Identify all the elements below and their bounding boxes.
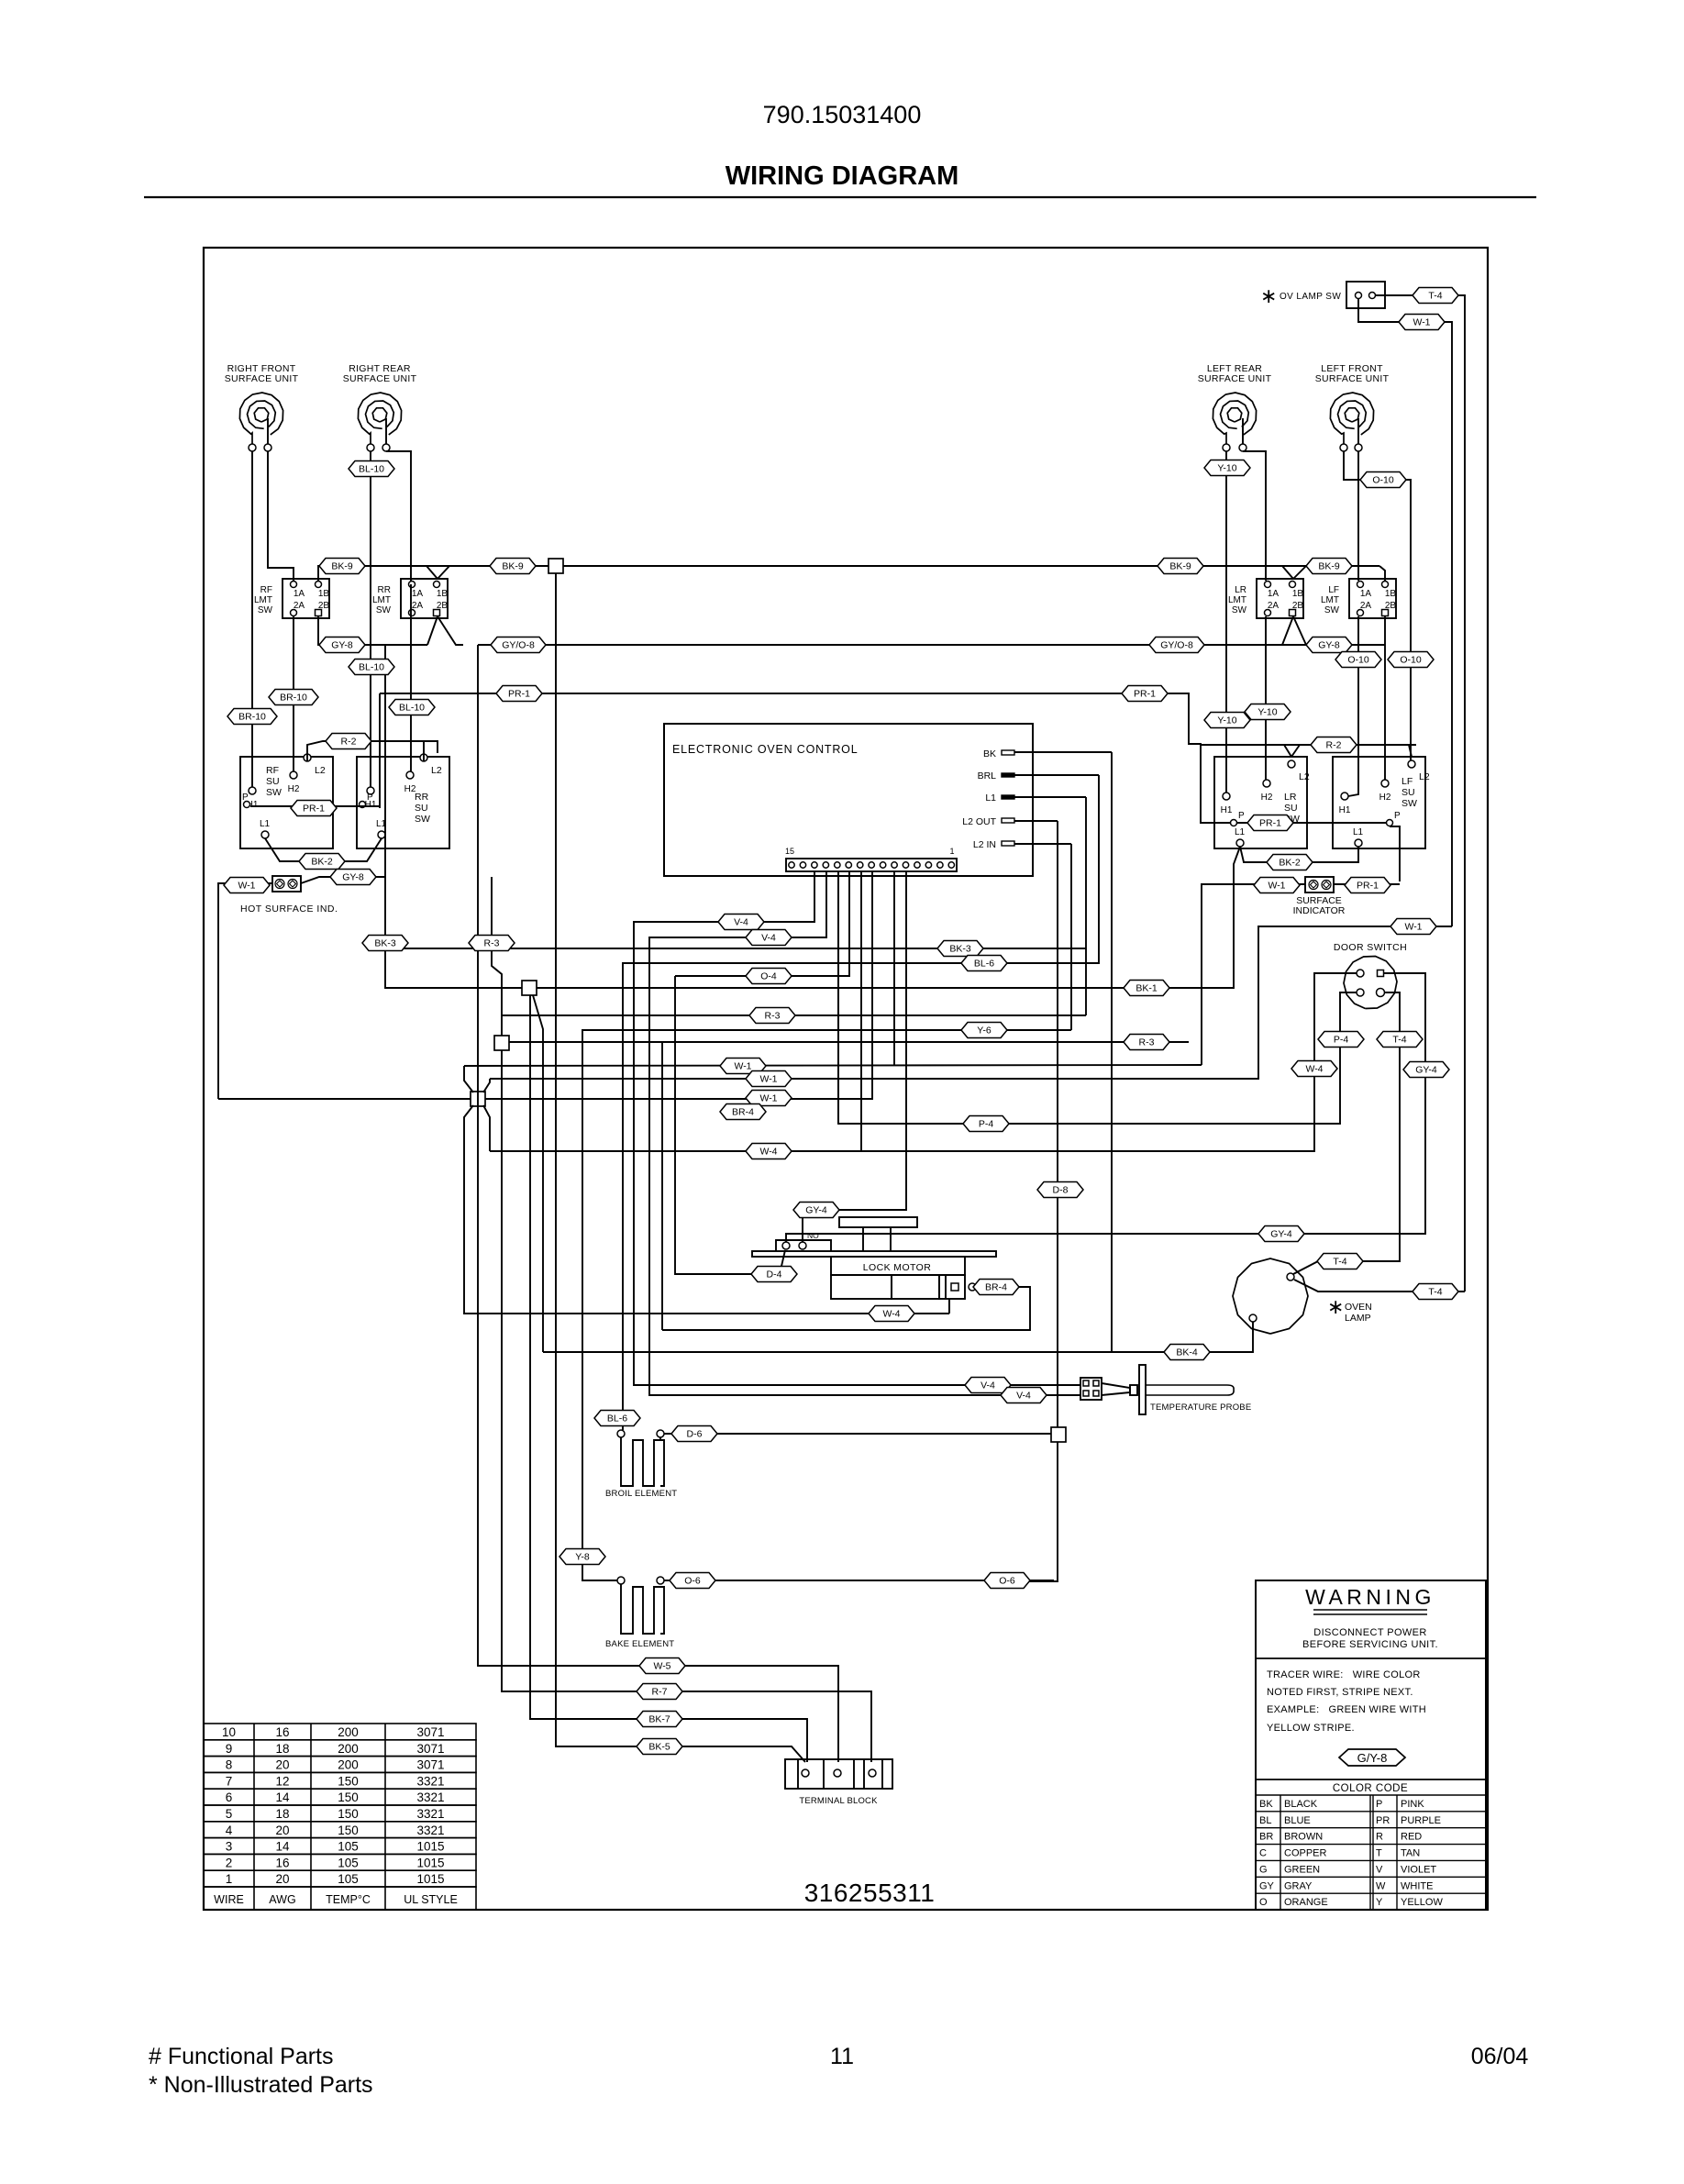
svg-text:W: W <box>1376 1880 1386 1891</box>
svg-text:105: 105 <box>338 1872 359 1886</box>
svg-text:200: 200 <box>338 1742 359 1756</box>
svg-text:L2: L2 <box>1299 771 1310 782</box>
wire label BK-2 <box>1267 855 1313 870</box>
wire O-6 bake right <box>664 1580 1054 1581</box>
wire D-4 stub into lock motor <box>752 1250 785 1274</box>
svg-text:SW: SW <box>1324 605 1340 615</box>
wire D-4 from O-4 drop <box>675 976 752 1274</box>
wire BR-4 riser <box>661 1042 663 1330</box>
wire BL-6 from EOC BRL <box>623 775 1099 1430</box>
wire label O-4 <box>746 969 792 984</box>
svg-text:200: 200 <box>338 1725 359 1739</box>
wire LR coil left lead to LR H1 with Y-10 <box>1225 451 1227 793</box>
svg-text:SU: SU <box>1401 787 1415 798</box>
svg-text:200: 200 <box>338 1758 359 1772</box>
svg-text:BL: BL <box>1259 1815 1271 1826</box>
wire Y-8 to bake element <box>582 1030 1071 1580</box>
wire label R-7 <box>637 1684 682 1700</box>
svg-text:1A: 1A <box>294 589 305 599</box>
OV LAMP SW <box>1260 282 1385 308</box>
svg-text:SU: SU <box>266 776 280 787</box>
svg-text:R-3: R-3 <box>765 1011 781 1022</box>
svg-text:14: 14 <box>275 1840 290 1854</box>
svg-text:H2: H2 <box>1261 793 1273 803</box>
svg-text:GY: GY <box>1259 1880 1275 1891</box>
wire label PR-1 <box>496 686 542 702</box>
wire W-1 run a <box>464 1065 1202 1066</box>
wire label PR-1 <box>1345 878 1390 893</box>
wire W-1 from left indicator <box>218 883 272 1099</box>
EOC output L2 OUT <box>962 816 1058 827</box>
wire label O-10 <box>1335 652 1381 668</box>
svg-text:RF: RF <box>266 765 279 776</box>
wire GY-4 door UR to lock motor <box>786 973 1425 1242</box>
wire label BL-10 <box>349 461 394 477</box>
svg-text:RF: RF <box>260 585 272 595</box>
svg-text:18: 18 <box>275 1742 289 1756</box>
wire GY-8 from indicator up to GY bus <box>301 645 385 883</box>
svg-text:R: R <box>1376 1832 1383 1843</box>
wire W-4 lock motor bottom label run <box>948 1299 950 1314</box>
svg-text:150: 150 <box>338 1774 359 1788</box>
wire O-4 from EOC pin <box>675 871 849 976</box>
wire W-1 from OV LAMP SW left <box>1358 299 1452 926</box>
svg-text:SW: SW <box>376 605 392 615</box>
svg-text:W-1: W-1 <box>759 1074 777 1085</box>
svg-text:P: P <box>242 793 249 803</box>
wire L1 drop from EOC <box>1085 797 1087 1015</box>
svg-text:PR-1: PR-1 <box>1134 689 1156 700</box>
wire R-2 fan to LR L2 <box>1284 745 1291 757</box>
RF limit switch <box>254 579 329 618</box>
wire label P-4 <box>1318 1032 1364 1048</box>
svg-text:3: 3 <box>226 1840 233 1854</box>
svg-text:BR-10: BR-10 <box>238 712 266 723</box>
wire label BR-4 <box>720 1104 766 1120</box>
wire W-4 pin drop <box>860 871 862 1151</box>
wire label GY-8 <box>330 870 376 885</box>
svg-text:105: 105 <box>338 1840 359 1854</box>
svg-text:∗: ∗ <box>1327 1295 1344 1318</box>
EOC terminal strip <box>785 847 957 871</box>
LR SU SW terminals <box>1221 760 1310 847</box>
door switch <box>1334 942 1407 1009</box>
svg-text:2: 2 <box>226 1856 233 1869</box>
svg-text:P: P <box>1238 811 1245 821</box>
wire label BL-6 <box>594 1411 640 1426</box>
svg-text:OVEN: OVEN <box>1345 1302 1372 1313</box>
svg-text:Y-8: Y-8 <box>575 1552 590 1563</box>
left front surface unit <box>1315 363 1390 451</box>
wire label BK-4 <box>1164 1345 1210 1360</box>
svg-text:Y-10: Y-10 <box>1217 463 1236 474</box>
svg-text:WIRE: WIRE <box>214 1893 244 1906</box>
wire D-8 L2 OUT drop <box>1057 821 1058 1427</box>
wire label T-4 <box>1377 1032 1423 1048</box>
svg-text:WHITE: WHITE <box>1401 1880 1433 1891</box>
svg-text:D-4: D-4 <box>767 1269 782 1280</box>
main border <box>204 248 1488 1910</box>
svg-text:NO: NO <box>807 1231 819 1240</box>
broil element <box>605 1430 677 1499</box>
wire node A down to BK-7 <box>530 995 807 1762</box>
wire label W-4 <box>746 1144 792 1159</box>
wire label W-5 <box>639 1658 685 1674</box>
svg-text:1015: 1015 <box>416 1840 444 1854</box>
svg-text:BR-10: BR-10 <box>280 693 307 704</box>
svg-text:1B: 1B <box>318 589 330 599</box>
svg-text:PR-1: PR-1 <box>1357 881 1379 892</box>
RR surface switch <box>357 757 449 848</box>
svg-text:790.15031400: 790.15031400 <box>763 101 922 128</box>
wire RR coil right lead to RR LMT 1A <box>386 451 411 581</box>
wire label BK-3 <box>937 941 983 957</box>
wire GY-8 diagonals LR LMT 2B <box>1282 616 1293 645</box>
svg-text:HOT SURFACE IND.: HOT SURFACE IND. <box>240 904 338 915</box>
svg-text:1B: 1B <box>437 589 449 599</box>
wire O-6 junction down to bake run <box>1027 1442 1058 1581</box>
svg-text:2A: 2A <box>412 601 424 611</box>
svg-text:V-4: V-4 <box>734 917 748 928</box>
svg-text:D-6: D-6 <box>687 1429 703 1440</box>
svg-text:GY-8: GY-8 <box>331 640 353 651</box>
wire V-4 lower to probe <box>649 871 1080 1395</box>
svg-text:SW: SW <box>415 814 430 825</box>
svg-text:L1: L1 <box>1353 827 1364 837</box>
svg-text:L2 OUT: L2 OUT <box>962 816 996 827</box>
wire V-4 upper to probe <box>634 871 1080 1385</box>
wire GY/O-8 bus <box>478 644 1385 646</box>
wire BK-4 oven lamp lower terminal <box>543 1322 1253 1352</box>
wire P-4 door LL to EOC pin <box>838 871 1357 1124</box>
svg-text:L2: L2 <box>315 765 326 776</box>
svg-text:BK-2: BK-2 <box>1279 858 1301 869</box>
svg-text:BLUE: BLUE <box>1284 1815 1311 1826</box>
svg-text:BK-9: BK-9 <box>331 561 353 572</box>
svg-text:TEMP°C: TEMP°C <box>326 1893 371 1906</box>
wire label W-4 <box>1291 1061 1337 1077</box>
svg-text:1A: 1A <box>412 589 424 599</box>
wire label R-2 <box>1311 737 1357 753</box>
wire label BK-9 <box>1306 559 1352 574</box>
wire label V-4 <box>746 930 792 946</box>
svg-text:2A: 2A <box>1360 601 1372 611</box>
wire label W-4 <box>869 1306 914 1322</box>
svg-text:INDICATOR: INDICATOR <box>1293 905 1346 916</box>
wire GY-8 RF LMT 2B to bus <box>318 616 427 645</box>
wire LF LMT 2B drop to GY-8 and H2 <box>1384 616 1386 780</box>
wire BK-3 vertical from GY bus to junction <box>385 877 522 988</box>
wire GY-4 into lock motor NO <box>795 1210 803 1242</box>
svg-text:GRAY: GRAY <box>1284 1880 1313 1891</box>
svg-text:BK-9: BK-9 <box>502 561 524 572</box>
svg-text:PR: PR <box>1376 1815 1390 1826</box>
svg-text:BRL: BRL <box>978 770 997 782</box>
wire BK-2 right: LR L1 to LF L1 <box>1240 847 1358 862</box>
wire label O-6 <box>670 1573 715 1589</box>
svg-text:BLACK: BLACK <box>1284 1799 1318 1810</box>
svg-text:SURFACE UNIT: SURFACE UNIT <box>1198 373 1272 384</box>
svg-text:V-4: V-4 <box>980 1380 995 1391</box>
wire BK-9 drop to LF LMT 1B <box>1379 566 1385 581</box>
svg-text:105: 105 <box>338 1856 359 1869</box>
lock motor <box>752 1217 996 1299</box>
svg-text:20: 20 <box>275 1872 289 1886</box>
svg-text:BK-3: BK-3 <box>949 944 971 955</box>
svg-text:LMT: LMT <box>1321 595 1339 605</box>
svg-text:TAN: TAN <box>1401 1848 1420 1859</box>
svg-text:BR-4: BR-4 <box>732 1107 754 1118</box>
wire label BL-10 <box>389 700 435 715</box>
wire node X down-right diagonal to W-4 upper <box>483 1105 490 1151</box>
svg-text:T-4: T-4 <box>1392 1035 1406 1046</box>
svg-text:W-1: W-1 <box>1404 922 1422 933</box>
wire W-1 from right indicator <box>1202 884 1305 1065</box>
wire label W-1 <box>746 1071 792 1087</box>
svg-text:SU: SU <box>1284 803 1298 814</box>
svg-text:BROIL ELEMENT: BROIL ELEMENT <box>605 1489 677 1499</box>
wire label W-1 <box>1399 315 1445 330</box>
junction node BK-9 <box>548 559 563 573</box>
svg-text:GY/O-8: GY/O-8 <box>1160 640 1193 651</box>
RF SU SW terminals <box>242 754 326 838</box>
svg-text:BR-4: BR-4 <box>985 1282 1007 1293</box>
wire W-1 long left <box>218 1098 471 1100</box>
wire label BK-5 <box>637 1739 682 1755</box>
wire label GY/O-8 <box>1149 637 1204 653</box>
wire BK-1 from EOC BK output <box>1111 752 1113 1352</box>
wire T-4 from OV LAMP SW right <box>1376 295 1465 1292</box>
wire BR-4 lock motor right <box>662 1287 1030 1330</box>
svg-text:GREEN: GREEN <box>1284 1864 1320 1875</box>
svg-text:WIRING DIAGRAM: WIRING DIAGRAM <box>726 161 959 191</box>
wire P-4 pin drop <box>837 871 839 1124</box>
LF SU SW terminals <box>1339 760 1430 847</box>
wire label W-1 <box>1254 878 1300 893</box>
svg-text:14: 14 <box>275 1790 290 1804</box>
svg-text:1A: 1A <box>1360 589 1372 599</box>
svg-text:PINK: PINK <box>1401 1799 1424 1810</box>
EOC output BK <box>983 748 1112 759</box>
wire BK-9 diagonals to RR LMT 1B <box>427 566 438 579</box>
svg-text:R-3: R-3 <box>1139 1037 1155 1048</box>
wire BK-1 junction to LR L1 <box>537 847 1240 988</box>
svg-text:BL-6: BL-6 <box>974 959 994 970</box>
wire label BK-9 <box>1158 559 1203 574</box>
wire label W-1 <box>720 1059 766 1074</box>
svg-text:W-4: W-4 <box>759 1147 777 1158</box>
svg-text:T-4: T-4 <box>1428 291 1442 302</box>
svg-text:3321: 3321 <box>416 1774 444 1788</box>
svg-text:O: O <box>1259 1897 1268 1908</box>
wire R-2 fan to LF L2 <box>1409 745 1412 757</box>
RR SU SW terminals <box>360 754 442 838</box>
svg-text:V-4: V-4 <box>1016 1391 1031 1402</box>
svg-text:GY/O-8: GY/O-8 <box>502 640 535 651</box>
svg-text:150: 150 <box>338 1790 359 1804</box>
bake element <box>605 1577 674 1649</box>
wire label BK-3 <box>362 936 408 951</box>
wire label R-3 <box>469 936 515 951</box>
svg-text:BR: BR <box>1259 1832 1273 1843</box>
svg-text:H2: H2 <box>404 784 416 794</box>
left rear surface unit <box>1198 363 1272 451</box>
wire label Y-10 <box>1204 460 1250 476</box>
svg-text:OV LAMP SW: OV LAMP SW <box>1280 292 1341 302</box>
svg-text:COPPER: COPPER <box>1284 1848 1327 1859</box>
svg-text:SW: SW <box>1232 605 1247 615</box>
RR limit switch <box>372 579 448 618</box>
svg-text:SU: SU <box>415 803 428 814</box>
wire LR coil right lead down to LR LMT <box>1243 451 1266 581</box>
wire BK-9 node down to BK-5 <box>556 573 805 1762</box>
junction node A <box>522 981 537 995</box>
wire node X up-left diagonal <box>464 1066 473 1092</box>
wire label BK-9 <box>319 559 365 574</box>
wire R-2 left segment <box>307 741 438 761</box>
svg-text:06/04: 06/04 <box>1471 2044 1529 2069</box>
svg-text:RED: RED <box>1401 1832 1422 1843</box>
wire label D-4 <box>751 1267 797 1282</box>
svg-text:150: 150 <box>338 1824 359 1837</box>
svg-text:Y-10: Y-10 <box>1217 715 1236 726</box>
svg-text:W-1: W-1 <box>1413 317 1430 328</box>
svg-text:9: 9 <box>226 1742 233 1756</box>
svg-text:# Functional Parts: # Functional Parts <box>149 2044 334 2069</box>
wire W-1 right horizontal <box>490 926 1452 1079</box>
svg-text:YELLOW: YELLOW <box>1401 1897 1443 1908</box>
svg-text:GY-4: GY-4 <box>805 1205 827 1216</box>
svg-text:RR: RR <box>378 585 391 595</box>
wire label PR-1 <box>1122 686 1168 702</box>
svg-text:8: 8 <box>226 1758 233 1772</box>
wire R-2 right segment <box>1201 744 1416 746</box>
wire label GY-8 <box>319 637 365 653</box>
svg-text:PURPLE: PURPLE <box>1401 1815 1441 1826</box>
svg-text:L2: L2 <box>431 765 442 776</box>
svg-text:11: 11 <box>830 2044 854 2069</box>
svg-text:W-1: W-1 <box>759 1093 777 1104</box>
wire diagonal from node A to BK-4 <box>533 995 543 1352</box>
svg-text:LMT: LMT <box>372 595 391 605</box>
svg-text:ELECTRONIC OVEN CONTROL: ELECTRONIC OVEN CONTROL <box>672 743 858 756</box>
svg-text:VIOLET: VIOLET <box>1401 1864 1436 1875</box>
svg-text:BK-1: BK-1 <box>1136 983 1158 994</box>
svg-text:1A: 1A <box>1268 589 1280 599</box>
svg-text:2A: 2A <box>294 601 305 611</box>
wire node B down to R-7 <box>502 1050 871 1762</box>
svg-text:SW: SW <box>266 787 282 798</box>
svg-text:W-1: W-1 <box>1268 881 1285 892</box>
svg-text:15: 15 <box>785 847 794 856</box>
svg-text:H2: H2 <box>288 784 300 794</box>
wire LR LMT 2A to LR H2 <box>1265 616 1267 780</box>
svg-text:BK-9: BK-9 <box>1318 561 1340 572</box>
surface indicator <box>1293 877 1346 916</box>
wire node X down-left diagonal to W-4 lower <box>464 1105 949 1314</box>
svg-text:BL-10: BL-10 <box>359 464 384 475</box>
svg-text:R-3: R-3 <box>484 938 500 949</box>
wire label GY-4 <box>1258 1226 1304 1242</box>
wire label GY/O-8 <box>491 637 546 653</box>
wire R-2 left fan to RR L2 <box>423 741 425 761</box>
svg-text:PR-1: PR-1 <box>1259 818 1281 829</box>
svg-text:BEFORE SERVICING UNIT.: BEFORE SERVICING UNIT. <box>1302 1639 1438 1650</box>
wire label D-8 <box>1037 1182 1083 1198</box>
svg-text:18: 18 <box>275 1807 289 1821</box>
svg-text:BROWN: BROWN <box>1284 1832 1323 1843</box>
svg-text:R-7: R-7 <box>652 1687 668 1698</box>
svg-text:RR: RR <box>415 792 429 803</box>
svg-text:T-4: T-4 <box>1428 1287 1442 1298</box>
svg-text:3321: 3321 <box>416 1824 444 1837</box>
svg-text:O-10: O-10 <box>1347 655 1369 666</box>
temperature probe <box>1080 1365 1251 1414</box>
wire label BK-7 <box>637 1712 682 1727</box>
wire label GY-8 <box>1306 637 1352 653</box>
LF surface switch <box>1333 757 1425 848</box>
junction node X <box>471 1092 485 1106</box>
svg-text:10: 10 <box>222 1725 236 1739</box>
wire label Y-10 <box>1204 713 1250 728</box>
svg-text:O-6: O-6 <box>999 1576 1015 1587</box>
wire PR-1 right of indicator <box>1334 883 1400 885</box>
wire label P-4 <box>963 1116 1009 1132</box>
svg-text:BK-9: BK-9 <box>1169 561 1191 572</box>
junction node D-6 <box>1051 1427 1066 1442</box>
svg-text:6: 6 <box>226 1790 233 1804</box>
svg-text:O-10: O-10 <box>1372 475 1394 486</box>
svg-text:BK-5: BK-5 <box>648 1742 670 1753</box>
svg-text:1: 1 <box>226 1872 233 1886</box>
svg-text:H2: H2 <box>1379 793 1391 803</box>
svg-text:O-10: O-10 <box>1400 655 1422 666</box>
wire D-6 broil to junction <box>664 1433 1051 1435</box>
wire label BK-2 <box>299 854 345 870</box>
svg-text:G: G <box>1259 1864 1268 1875</box>
EOC output L1 <box>985 793 1086 804</box>
wire LF coil left lead to O-10 run <box>1344 451 1411 760</box>
wire label O-10 <box>1388 652 1434 668</box>
wire T-4 door LR <box>1361 992 1400 1261</box>
svg-text:L2: L2 <box>1419 771 1430 782</box>
svg-text:C: C <box>1259 1848 1267 1859</box>
wire label T-4 <box>1317 1254 1363 1269</box>
svg-text:GY-4: GY-4 <box>1270 1229 1292 1240</box>
svg-text:BL-10: BL-10 <box>399 703 425 714</box>
wire label T-4 <box>1413 1284 1458 1300</box>
svg-text:W-4: W-4 <box>1305 1064 1323 1075</box>
wire label R-3 <box>1124 1035 1169 1050</box>
svg-text:SURFACE UNIT: SURFACE UNIT <box>1315 373 1390 384</box>
wire node X up-right diagonal <box>483 1079 490 1092</box>
svg-text:TRACER WIRE: WIRE COLOR: TRACER WIRE: WIRE COLOR <box>1267 1669 1421 1680</box>
wire RF coil right lead to RF LMT 1A <box>268 451 294 581</box>
wire T-4 oven lamp to right riser <box>1294 1280 1465 1292</box>
svg-text:1B: 1B <box>1292 589 1304 599</box>
LF limit switch <box>1321 579 1396 618</box>
svg-text:12: 12 <box>275 1774 289 1788</box>
svg-text:W-1: W-1 <box>734 1061 751 1072</box>
svg-text:SURFACE UNIT: SURFACE UNIT <box>225 373 299 384</box>
wire T-4 to oven lamp upper terminal <box>1293 1261 1318 1274</box>
svg-text:BK-3: BK-3 <box>374 938 396 949</box>
svg-text:2B: 2B <box>1292 601 1304 611</box>
svg-text:PR-1: PR-1 <box>303 804 325 815</box>
wire label V-4 <box>965 1378 1011 1393</box>
svg-text:Y: Y <box>1376 1897 1383 1908</box>
svg-text:W-1: W-1 <box>238 881 255 892</box>
